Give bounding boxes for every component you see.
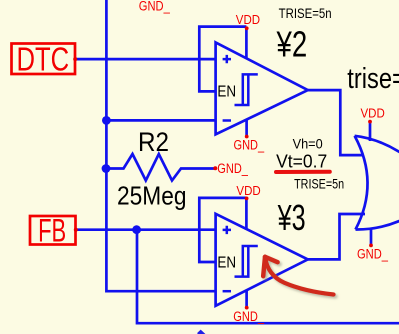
- svg-text:¥3: ¥3: [277, 197, 306, 238]
- junction on bus at U2 minus wire: [102, 116, 111, 125]
- U3 GND pin stub: [245, 291, 248, 308]
- svg-text:VDD: VDD: [236, 183, 260, 198]
- svg-text:GND_: GND_: [139, 0, 170, 13]
- wire: bus to U2 minus input: [106, 119, 215, 122]
- OR gate bottom edge: [356, 196, 399, 230]
- svg-text:GND_: GND_: [233, 309, 264, 324]
- wire arrow marker (bottom, cut off): [197, 330, 205, 334]
- svg-text:GND_: GND_: [217, 161, 248, 176]
- svg-text:¥2: ¥2: [276, 24, 307, 65]
- U2 triangle body: [216, 42, 308, 134]
- U2 GND pin stub: [245, 120, 248, 137]
- OR gate left concave edge: [355, 136, 368, 230]
- junction on FB wire: [132, 225, 141, 234]
- svg-text:FB: FB: [38, 212, 66, 248]
- svg-text:Vt=0.7: Vt=0.7: [276, 150, 327, 171]
- OR gate VDD pin stub: [369, 122, 372, 141]
- wire: U3 output to OR gate lower input: [308, 214, 365, 259]
- U3 plus input glyph: [223, 226, 231, 234]
- U3 VDD pin stub: [245, 199, 248, 230]
- wire: U2 EN tie to VDD: [199, 27, 246, 92]
- U3 triangle body: [216, 214, 308, 306]
- terminal DTC: [12, 42, 78, 79]
- comparator U3 (Y3): [216, 197, 308, 310]
- U3 hysteresis glyph: [235, 246, 258, 277]
- annotation red underline under Vt=0.7: [276, 170, 330, 174]
- junction on bus at R2: [102, 164, 111, 173]
- U2 minus input glyph: [223, 119, 231, 122]
- wire: DTC to U2 plus input: [75, 58, 215, 61]
- svg-text:GND_: GND_: [234, 138, 265, 153]
- terminal FB: [30, 212, 78, 248]
- resistor R2: [106, 154, 217, 181]
- comparator U2 (Y2): [216, 26, 308, 138]
- svg-text:GND_: GND_: [357, 247, 388, 262]
- OR gate U4: [355, 120, 399, 248]
- wire: vertical bus and U3 minus input: [106, 0, 215, 291]
- U2 plus input glyph: [223, 55, 231, 63]
- svg-text:EN: EN: [217, 254, 236, 271]
- svg-text:DTC: DTC: [17, 42, 70, 79]
- svg-text:25Meg: 25Meg: [117, 183, 187, 211]
- svg-text:trise=: trise=: [347, 63, 399, 95]
- OR gate top edge: [355, 136, 399, 182]
- wire: FB junction down and bottom rail: [137, 230, 399, 324]
- annotation red hand-drawn arrow: [263, 257, 333, 295]
- svg-text:VDD: VDD: [236, 12, 260, 27]
- svg-text:R2: R2: [138, 127, 169, 157]
- svg-text:TRISE=5n: TRISE=5n: [294, 176, 344, 192]
- U2 VDD pin stub: [245, 28, 248, 59]
- U2 hysteresis glyph: [235, 74, 258, 105]
- svg-text:VDD: VDD: [361, 106, 385, 121]
- U3 minus input glyph: [223, 290, 231, 293]
- svg-text:EN: EN: [217, 83, 236, 100]
- OR gate GND pin stub: [370, 230, 373, 246]
- wire: U2 output to OR gate upper input: [308, 90, 364, 155]
- svg-text:TRISE=5n: TRISE=5n: [279, 5, 332, 21]
- wire: FB to U3 plus input: [76, 228, 216, 231]
- wire: U3 EN tie to VDD: [199, 198, 246, 262]
